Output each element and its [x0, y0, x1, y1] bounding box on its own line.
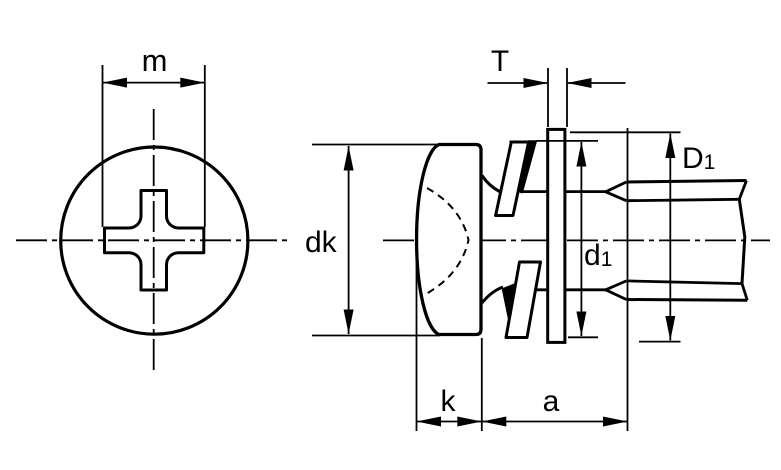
dimension m extension line right [204, 65, 206, 227]
dimension d1 extension bottom [568, 336, 598, 338]
dimension d1 extension top [537, 140, 599, 142]
flat washer [548, 129, 565, 342]
thread bottom: crest line [626, 298, 747, 302]
dimension T extension right [566, 68, 568, 127]
shared extension line head face [481, 338, 483, 431]
centerline vertical (left view) [153, 109, 155, 373]
arrowhead m right [180, 78, 205, 88]
arrowhead D1 top [665, 134, 675, 159]
dimension k extension left [416, 244, 418, 431]
dk extension line top (head top extended) [312, 144, 440, 146]
svg-text:a: a [543, 385, 560, 418]
svg-text:dk: dk [305, 226, 338, 259]
arrowhead T left [524, 78, 549, 88]
svg-text:k: k [441, 385, 457, 418]
dk extension line bottom (head bottom extended) [312, 335, 440, 337]
thread bottom: root line [626, 281, 742, 284]
head outline circle [61, 147, 248, 334]
dimension a extension right [627, 128, 629, 431]
dimension D1 extension top [570, 131, 681, 133]
arrowhead T right [567, 78, 592, 88]
dimension T line left part [488, 82, 548, 84]
pan head outline [417, 145, 481, 335]
shank break edge right [739, 199, 745, 283]
svg-text:m: m [142, 43, 168, 78]
spring washer top: visible coil face [496, 142, 529, 216]
shank line bottom [533, 288, 606, 291]
thread bottom: end diagonal [742, 284, 747, 301]
svg-text:T: T [491, 45, 509, 78]
under-head fillet top [482, 176, 500, 192]
arrowhead d1 bottom [576, 312, 586, 337]
shank line top [520, 190, 606, 193]
dimension dk line [348, 146, 350, 334]
under-head fillet bottom [482, 287, 503, 303]
arrowhead D1 bottom [665, 316, 675, 341]
dimension D1 line [669, 134, 671, 341]
arrowhead dk top [344, 146, 354, 171]
dimension D1 extension bottom [639, 341, 681, 343]
dimension k line [417, 421, 482, 423]
thread bottom: runout point [606, 281, 627, 300]
arrowhead m left [103, 78, 128, 88]
dimension m line [103, 82, 204, 84]
thread top: end diagonal [739, 181, 746, 200]
arrowhead k right [457, 417, 482, 427]
dimension a line [482, 421, 628, 423]
dimension d1 line [580, 142, 582, 336]
arrowhead dk bottom [344, 310, 354, 335]
dimension T line right part [568, 82, 626, 84]
thread top: crest line [626, 181, 746, 183]
dimension T extension left [547, 68, 549, 127]
recess depth dashed arc (hidden line) [426, 188, 469, 294]
arrowhead a right [603, 417, 628, 427]
centerline horizontal (left view) [16, 239, 287, 241]
thread top: runout point [606, 182, 627, 201]
arrowhead k left [417, 417, 442, 427]
thread top: root line [626, 199, 739, 200]
spring washer top: section wedge (black) [518, 141, 537, 193]
axis centerline (side view) [383, 239, 770, 241]
phillips recess cross [105, 191, 204, 291]
dimension m extension line left [102, 65, 104, 227]
spring washer top: outer edge line [510, 141, 537, 144]
spring washer bottom: section wedge (black) [503, 283, 519, 329]
arrowhead a left [482, 417, 507, 427]
spring washer bottom: visible coil face [506, 262, 541, 338]
arrowhead d1 top [576, 142, 586, 167]
